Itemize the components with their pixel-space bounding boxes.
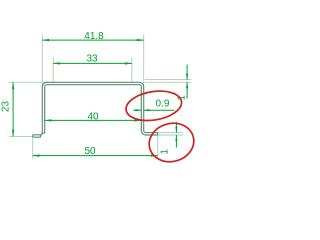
arrowhead 50 left [33, 154, 40, 156]
arrowhead 40 right [135, 119, 142, 121]
dimension line 1 top-right [186, 65, 188, 80]
leader line 0.9 left tail [133, 109, 141, 111]
profile inner surface [33, 85, 158, 138]
dimension line 50 [33, 155, 158, 157]
extension line 23 bottom [9, 135, 33, 137]
arrowhead 33 right [125, 62, 132, 64]
extension line 50 right [157, 136, 159, 159]
red highlight ellipse lower (1 detail) [145, 118, 198, 166]
extension line 23 top [8, 81, 53, 83]
extension line 33 right [131, 57, 133, 81]
svg-text:41.8: 41.8 [84, 31, 104, 42]
extension line 41.8 right [143, 34, 145, 90]
extension line bottom-right nominal level [158, 134, 184, 136]
arrowhead 50 right [151, 154, 158, 156]
dimension line 41.8 [42, 39, 143, 41]
arrowhead 41.8 left [42, 39, 49, 41]
extension line bottom-right flange top extended [158, 132, 184, 134]
red highlight ellipse upper (0.9 detail) [124, 87, 184, 124]
profile right end edge [157, 133, 159, 135]
dimension line 33 [53, 62, 132, 64]
arrowhead 1 bottom-right upper [175, 127, 177, 133]
arrowhead 1 top-right upper [186, 74, 188, 80]
dimension line 23 [12, 82, 14, 136]
svg-text:33: 33 [86, 54, 98, 65]
svg-text:23: 23 [0, 101, 11, 113]
leader line 0.9 right tail [144, 109, 175, 111]
arrowhead 0.9 left [135, 109, 141, 111]
profile left end edge [32, 135, 34, 137]
extension line top-right nominal level [145, 79, 192, 81]
arrowhead 40 left [45, 119, 52, 121]
arrowhead 0.9 right [144, 109, 150, 111]
arrowhead 41.8 right [137, 39, 144, 41]
extension line 50 left [32, 138, 34, 159]
arrowhead 1 bottom-right lower [175, 135, 177, 141]
arrowhead 23 bottom [12, 130, 14, 137]
arrowhead 23 top [12, 82, 14, 89]
extension line 33 left [52, 57, 54, 82]
svg-text:1: 1 [159, 149, 170, 155]
extension line 41.8 left [41, 34, 43, 90]
svg-text:50: 50 [84, 146, 96, 157]
svg-text:40: 40 [87, 111, 99, 122]
svg-text:0.9: 0.9 [156, 99, 170, 110]
dimension line 40 [45, 119, 142, 121]
profile outer surface [33, 82, 158, 135]
arrowhead 1 top-right lower [186, 82, 188, 88]
dimension line 1 bottom-right [175, 122, 177, 133]
extension line top-right outer surface extended [145, 81, 192, 83]
arrowhead 33 left [53, 62, 60, 64]
